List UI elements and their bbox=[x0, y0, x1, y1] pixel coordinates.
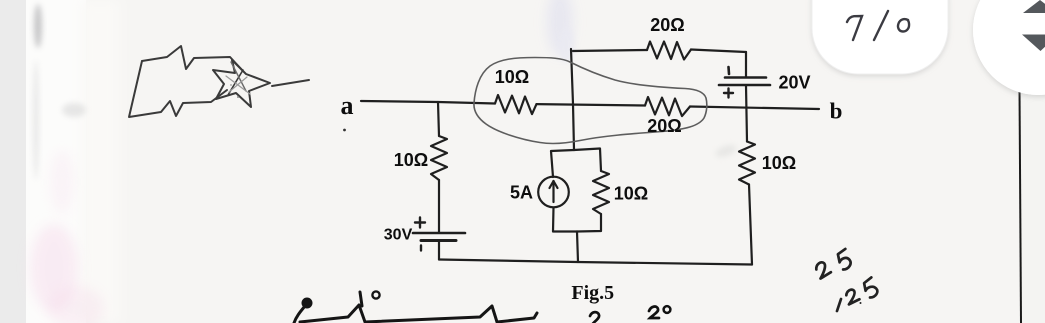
svg-text:20V: 20V bbox=[778, 73, 810, 93]
svg-text:Fig.5: Fig.5 bbox=[571, 282, 614, 304]
svg-text:30V: 30V bbox=[384, 227, 413, 244]
svg-text:10Ω: 10Ω bbox=[614, 184, 648, 204]
svg-text:20Ω: 20Ω bbox=[650, 15, 684, 35]
svg-text:a: a bbox=[341, 91, 354, 120]
svg-text:20Ω: 20Ω bbox=[647, 116, 681, 136]
svg-text:10Ω: 10Ω bbox=[495, 67, 529, 87]
svg-text:10Ω: 10Ω bbox=[762, 153, 796, 173]
svg-text:b: b bbox=[830, 99, 843, 124]
svg-text:10Ω: 10Ω bbox=[394, 150, 428, 170]
svg-text:5A: 5A bbox=[510, 183, 533, 203]
